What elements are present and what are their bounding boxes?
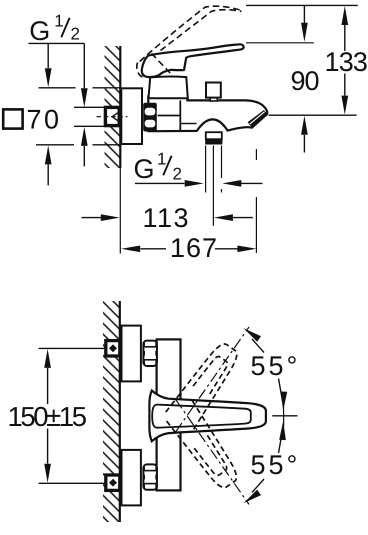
right extension lines xyxy=(246,5,358,115)
svg-text:90: 90 xyxy=(291,66,319,96)
dimension 70: lower arrows xyxy=(45,127,88,185)
label G 1/2 (lower, outlet) xyxy=(134,149,182,184)
svg-text:55°: 55° xyxy=(251,351,301,381)
centerline -55 (dash-dot) xyxy=(176,399,250,504)
dimension 90 xyxy=(291,5,319,152)
dimension 113 xyxy=(82,203,253,233)
dimension 150±15: line + arrows + text xyxy=(8,349,87,483)
square symbol + text 70 xyxy=(3,104,61,134)
svg-text:1: 1 xyxy=(54,11,63,30)
label G 1/2 (top left) xyxy=(29,11,80,46)
body (front view) xyxy=(157,339,181,490)
union nut (side view) xyxy=(143,103,157,132)
union centerline (dashed) xyxy=(97,116,128,118)
dimension 133 xyxy=(325,6,368,115)
escutcheon lower xyxy=(122,450,141,506)
cartridge cap xyxy=(149,77,188,99)
lever handle raised position (dashed) xyxy=(137,6,242,77)
union nut lower (front view) xyxy=(143,464,157,489)
dimension 70: extension lines xyxy=(36,88,121,145)
G 1/2 outlet leader + arrows xyxy=(135,180,263,187)
body seam lines xyxy=(158,100,197,130)
shower outlet nipple (G 1/2) xyxy=(205,132,222,144)
escutcheon upper xyxy=(122,326,141,382)
svg-text:70: 70 xyxy=(27,104,62,134)
svg-text:113: 113 xyxy=(143,203,191,233)
lever rotated -55 (dashed) xyxy=(165,401,244,494)
in-wall union (section) xyxy=(105,107,119,125)
angle annotation lower 55deg xyxy=(242,421,301,506)
wall (top view, hatched) xyxy=(105,46,121,168)
in-wall union upper xyxy=(106,341,120,356)
union nut upper (front view) xyxy=(143,341,157,366)
svg-text:2: 2 xyxy=(71,25,80,44)
lever handle (solid, side view) xyxy=(142,44,244,77)
centerline +55 (dash-dot) xyxy=(176,327,250,432)
angle annotation upper 55deg xyxy=(242,325,301,410)
wall (front view, hatched) xyxy=(103,301,120,522)
outlet extension lines xyxy=(206,146,222,226)
faucet body + spout (side view) xyxy=(148,96,267,131)
svg-text:2: 2 xyxy=(173,165,182,184)
dimension 150±15: extension lines xyxy=(39,348,105,483)
svg-text:133: 133 xyxy=(325,47,368,77)
knob on body top xyxy=(206,83,221,102)
svg-text:150±15: 150±15 xyxy=(8,401,87,432)
svg-text:G: G xyxy=(134,154,155,184)
lever (front view, solid) xyxy=(149,391,266,442)
svg-text:55°: 55° xyxy=(251,450,301,480)
lever rotated +55 (dashed) xyxy=(166,338,245,431)
escutcheon (side view) xyxy=(121,88,142,144)
svg-text:167: 167 xyxy=(170,233,218,263)
wall-surface extension line (x=120.3 down to 167 dim) xyxy=(119,168,121,254)
angle reference line + tick xyxy=(272,405,297,427)
dimension 167 xyxy=(121,149,256,263)
svg-text:G: G xyxy=(29,16,50,46)
in-wall union lower xyxy=(106,475,120,490)
G 1/2 leader underline + arrows xyxy=(29,43,88,107)
svg-text:1: 1 xyxy=(157,149,166,168)
